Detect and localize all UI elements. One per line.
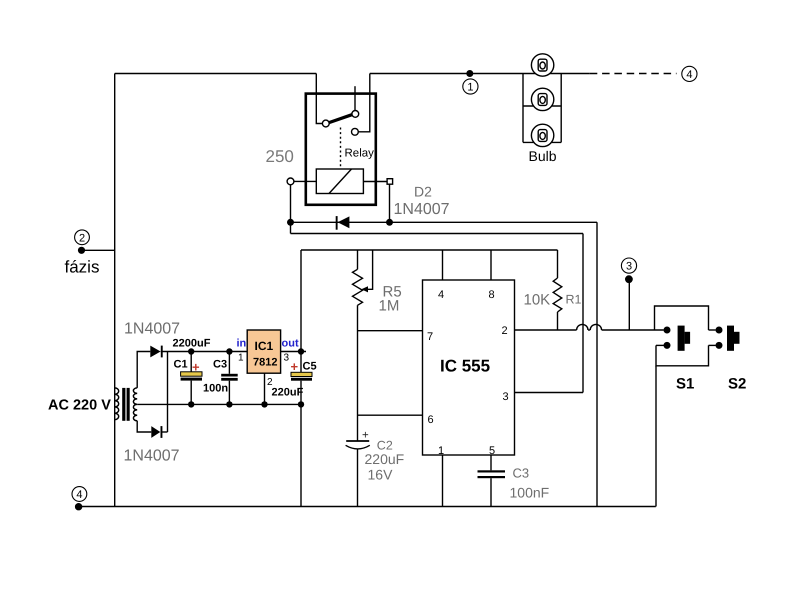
svg-text:7812: 7812 [253, 357, 277, 369]
S2 stubs [709, 329, 716, 331]
bulb lamp group [523, 54, 561, 164]
junction dot D2 right [386, 219, 393, 226]
svg-text:D2: D2 [414, 184, 432, 200]
svg-text:4: 4 [76, 489, 82, 501]
bulb box right vertical [560, 74, 562, 143]
relay coil box [316, 169, 363, 194]
wire 7812 gnd pin down [264, 373, 266, 404]
capacitor C3 100n [203, 348, 238, 407]
relay coil diagonal [329, 169, 352, 194]
svg-text:7: 7 [427, 331, 433, 343]
relay switch arm [329, 115, 352, 123]
wire relay left terminal down [290, 185, 292, 234]
svg-text:2200uF: 2200uF [173, 338, 211, 350]
capacitor C2 [346, 430, 405, 507]
svg-text:3: 3 [503, 391, 509, 403]
relay coil right terminal [387, 179, 393, 185]
svg-text:IC 555: IC 555 [440, 357, 490, 376]
wire pin1 stub [442, 455, 444, 507]
relay K1 [266, 74, 393, 205]
S1 outline top [655, 306, 709, 330]
svg-text:10K: 10K [524, 292, 551, 309]
wire dashed to node 4 [590, 73, 677, 75]
wire hop 1 [577, 324, 588, 330]
S1 button [678, 326, 685, 351]
svg-text:220uF: 220uF [272, 387, 304, 399]
svg-text:2: 2 [502, 325, 508, 337]
svg-text:+: + [291, 359, 299, 374]
svg-text:1N4007: 1N4007 [124, 448, 180, 465]
wire relay right terminal down [389, 184, 391, 222]
IC 555 [358, 250, 584, 507]
relay NO contact circle [352, 128, 359, 135]
junction dot D2 left [287, 219, 294, 226]
node 3 [621, 258, 636, 330]
transformer core bar 1 [122, 388, 125, 421]
wire bottom rail [78, 506, 656, 508]
transformer primary winding [115, 388, 119, 420]
node 4 top-right [682, 66, 697, 81]
wire out [281, 351, 306, 353]
C2 bottom wire [357, 449, 359, 507]
relay dashed actuator line [340, 128, 342, 169]
C2 top plate [346, 440, 369, 442]
resistor R1 10K [524, 250, 582, 330]
svg-text:1M: 1M [379, 298, 400, 315]
svg-text:100n: 100n [203, 383, 228, 395]
svg-text:fázis: fázis [65, 258, 100, 277]
wire secondary center tap [137, 403, 191, 405]
S1 bottom stub [656, 344, 667, 346]
diode D top 1N4007 [124, 321, 247, 358]
svg-text:AC 220 V: AC 220 V [48, 398, 111, 414]
node 2 fazis [65, 230, 100, 277]
wire top-right horizontal (relay to bulb) [370, 73, 590, 75]
potentiometer R5 1M [353, 250, 402, 441]
diode D2 cathode bar [336, 216, 338, 230]
C2 bottom curved plate [346, 445, 370, 449]
svg-text:6: 6 [428, 414, 434, 426]
bulb lamp 2 [531, 88, 553, 110]
node 4 bottom-left [72, 487, 87, 511]
wire cathodes join vertical [167, 352, 169, 433]
R5 zigzag [353, 269, 363, 305]
wire coil right to box [363, 181, 387, 183]
relay input wire left [316, 74, 322, 124]
S1 outline bottom [656, 345, 709, 365]
svg-text:8: 8 [489, 289, 495, 301]
svg-text:250: 250 [266, 147, 294, 166]
wire top-left horizontal [115, 73, 317, 75]
svg-text:4: 4 [686, 69, 692, 81]
capacitor C3 100nF (pin5) [478, 455, 550, 507]
wire secondary bottom terminal [137, 421, 151, 432]
bulb box left vertical [522, 74, 524, 143]
svg-text:2: 2 [79, 232, 85, 244]
R5 bottom column [357, 305, 359, 441]
node 1 [463, 70, 478, 94]
relay outer box [306, 94, 376, 205]
wire mid rail [191, 403, 301, 405]
wire pin7 [358, 330, 423, 332]
diode D2 assembly [287, 184, 597, 507]
transformer secondary winding [133, 388, 137, 421]
S2 button [727, 326, 734, 351]
capacitor C1 [173, 338, 211, 408]
relay common contact circle [322, 120, 329, 127]
wire diode bottom to join [161, 431, 168, 433]
diode D2 triangle [338, 216, 350, 228]
svg-text:C3: C3 [213, 359, 227, 371]
svg-text:S1: S1 [676, 376, 694, 393]
svg-text:Relay: Relay [345, 148, 375, 160]
R5 wiper riser [366, 250, 373, 289]
relay output wire right [358, 74, 370, 132]
wire D2 horizontal [291, 221, 598, 223]
bulb lamp 3 [531, 124, 553, 146]
svg-text:Bulb: Bulb [529, 148, 557, 164]
svg-text:4: 4 [438, 289, 444, 301]
wire hop 2 [590, 324, 601, 330]
wire pin3 [515, 392, 584, 394]
svg-text:in: in [237, 338, 247, 350]
svg-text:IC1: IC1 [255, 339, 274, 353]
wire vertical x583 to pin3 [582, 234, 584, 393]
R5 top stub [357, 250, 359, 269]
svg-text:S2: S2 [728, 376, 746, 393]
svg-text:C5: C5 [303, 361, 317, 373]
wire pin4 stub [442, 250, 444, 280]
wire 12V riser [300, 250, 302, 352]
svg-text:3: 3 [626, 261, 632, 273]
svg-text:C1: C1 [174, 359, 188, 371]
svg-text:1: 1 [467, 82, 473, 94]
capacitor C5 [272, 250, 317, 507]
wire secondary top terminal [137, 352, 150, 388]
wire pin8 stub [490, 250, 492, 280]
S2 contact dots [716, 327, 723, 334]
wire 555 top rail [301, 249, 558, 251]
R5 wiper arrow [361, 286, 368, 292]
svg-text:220uF: 220uF [365, 451, 405, 467]
relay pole contact circle [352, 111, 359, 118]
wire pin2 with hops [515, 324, 664, 330]
svg-text:1: 1 [438, 445, 444, 457]
regulator IC1 7812 [191, 330, 306, 408]
svg-text:100nF: 100nF [510, 485, 550, 501]
S1 contact dots [664, 327, 671, 334]
svg-text:C3: C3 [513, 466, 530, 481]
relay pole stub [354, 86, 356, 110]
wire left main vertical [114, 74, 116, 507]
svg-text:3: 3 [284, 353, 290, 364]
transformer core bar 2 [127, 388, 130, 421]
S1 down riser [655, 366, 657, 507]
switch S2 [709, 326, 747, 393]
transformer TR1 [48, 352, 191, 433]
bulb lamp 1 [531, 54, 553, 76]
bulb box mid line [523, 105, 561, 107]
diode D bottom 1N4007 [124, 352, 180, 465]
wire vertical x597 to ground [596, 222, 598, 506]
wire fazis stub [82, 249, 115, 251]
svg-text:16V: 16V [368, 467, 394, 483]
svg-text:+: + [362, 430, 369, 442]
wire coil left to box [294, 180, 316, 182]
wire second line horizontal [291, 233, 584, 235]
svg-text:out: out [282, 338, 299, 350]
svg-text:R1: R1 [566, 293, 582, 307]
svg-text:1N4007: 1N4007 [394, 201, 450, 218]
relay coil left terminal [287, 178, 294, 185]
wire diode top to regulator [161, 351, 247, 353]
switch S1 [655, 306, 709, 507]
svg-text:5: 5 [489, 445, 495, 457]
svg-text:1: 1 [238, 353, 244, 364]
svg-text:1N4007: 1N4007 [124, 321, 180, 338]
bulb box bottom line [523, 141, 561, 143]
wire pin6 [358, 414, 423, 416]
